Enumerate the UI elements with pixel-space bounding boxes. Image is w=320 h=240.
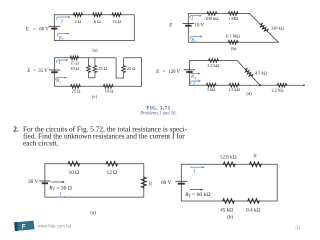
current arrow I (a) [57,16,71,20]
svg-text:0.4 kΩ: 0.4 kΩ [246,207,260,213]
svg-text:1.2 kΩ: 1.2 kΩ [207,63,220,68]
svg-text:(c): (c) [92,94,98,99]
resistor R5 2.2kΩ [277,83,288,87]
svg-text:1 MΩ: 1 MΩ [228,16,239,21]
resistor R3 12Ω [111,13,122,17]
resistor R1 1.2kΩ [208,59,219,63]
svg-text:RT = 30 Ω: RT = 30 Ω [48,186,72,192]
battery E 30V [39,181,50,183]
wire loop circuit (b) with diagonal [188,14,278,43]
svg-text:12 Ω: 12 Ω [112,19,122,24]
wire loop fig5.72 (b) [181,164,277,201]
arrow RT fig5.72b [190,189,203,191]
arrow RT (c) [56,77,67,81]
svg-text:F: F [22,224,26,231]
battery E (c) [49,70,60,72]
svg-text:I: I [58,61,61,66]
resistor R3 45kΩ [222,199,235,204]
resistor R2 6Ω [92,13,103,17]
svg-text:I: I [192,82,195,87]
svg-text:31: 31 [295,226,301,232]
svg-text:2 Ω: 2 Ω [75,19,82,24]
svg-text:25 Ω: 25 Ω [98,66,107,71]
terminal dot right end (d) [303,84,305,86]
wire U-link between vertical resistors (c) [89,58,95,78]
resistor R2 unknown R [249,162,262,167]
svg-text:10 Ω: 10 Ω [70,66,79,71]
resistor R1 15Ω [70,56,80,60]
svg-text:I: I [59,192,62,197]
svg-text:3 kΩ: 3 kΩ [207,87,216,92]
arrow RT (d) [191,73,201,75]
svg-text:E: E [168,23,172,28]
resistor R4 25Ω vertical [122,65,126,73]
battery E (d) [184,70,195,72]
svg-text:330 kΩ: 330 kΩ [271,25,285,30]
resistor R1 2Ω [73,13,84,17]
junction node dot (d) [259,84,261,86]
resistor R5 10Ω bottom [103,84,114,88]
resistor R2 4.5kΩ diagonal [243,67,253,78]
svg-text:25 Ω: 25 Ω [127,66,136,71]
svg-text:6 Ω: 6 Ω [94,19,101,24]
svg-text:45 kΩ: 45 kΩ [220,207,233,213]
svg-text:10 Ω: 10 Ω [105,89,114,94]
resistor R1 10Ω [67,162,80,167]
svg-text:60 V: 60 V [161,180,172,186]
svg-text:RT: RT [55,79,62,84]
wire circuit (d) [189,61,304,86]
svg-text:www.fida.com.bd: www.fida.com.bd [38,224,72,229]
resistor R3 330kΩ [259,22,269,32]
current arrow I fig5.72b [190,166,205,168]
svg-text:Problems 1 and 56.: Problems 1 and 56. [139,111,177,116]
wire second loop (c) [116,58,124,78]
svg-text:0.1 MΩ: 0.1 MΩ [226,33,240,38]
battery E 60V [175,181,187,183]
svg-text:12.6 kΩ: 12.6 kΩ [220,154,237,160]
svg-text:2.2 kΩ: 2.2 kΩ [271,87,284,92]
battery E (b) [183,24,194,26]
resistor R2 12Ω [105,162,118,167]
svg-text:I: I [60,20,63,25]
resistor R4 1.3kΩ [229,83,240,87]
svg-text:I: I [193,170,196,175]
current arrow I fig5.72a [55,196,67,198]
svg-text:(b): (b) [227,216,233,221]
svg-text:(a): (a) [92,48,98,53]
svg-text:1.3 kΩ: 1.3 kΩ [228,87,241,92]
arrow RT (b) [190,35,202,39]
svg-text:4.5 kΩ: 4.5 kΩ [255,70,268,75]
current arrow I (d) [191,80,201,84]
svg-text:(b): (b) [231,46,237,51]
wire loop fig5.72 (a) [45,164,144,197]
svg-text:10 Ω: 10 Ω [69,170,79,176]
svg-text:RT: RT [190,38,197,43]
svg-text:E=35 V: E=35 V [26,69,48,74]
battery E (a) [49,26,60,28]
resistor R4 0.4kΩ [247,199,260,204]
svg-text:25 Ω: 25 Ω [72,89,81,94]
resistor R2 10Ω vertical [87,65,91,73]
footer logo flag [14,221,34,231]
svg-text:RT = 60 kΩ: RT = 60 kΩ [184,192,210,198]
current arrow I (b) [190,15,202,19]
svg-text:E=60 V: E=60 V [25,27,50,32]
svg-text:200 kΩ: 200 kΩ [205,16,219,21]
resistor R1 12.6kΩ [223,162,236,167]
resistor R unknown [141,176,146,188]
resistor R2 1MΩ [228,12,239,16]
resistor R3 25Ω vertical [93,65,97,73]
current arrow I (c) [57,59,69,63]
svg-text:10 V: 10 V [195,23,205,28]
svg-text:(d): (d) [246,91,252,96]
wire loop circuit (a) [54,15,134,41]
svg-text:E=120 V: E=120 V [155,70,180,75]
resistor R6 25Ω bottom [70,84,81,88]
svg-text:R: R [252,154,257,160]
arrow RT fig5.72a [51,181,64,183]
svg-text:R: R [148,181,153,187]
svg-text:2.: 2. [13,125,19,134]
svg-text:(a): (a) [90,211,96,216]
resistor R3 3kΩ [206,83,217,87]
svg-text:I: I [190,17,193,22]
resistor R4 0.1MΩ [228,40,239,44]
wire snake circuit (c) [55,58,142,87]
svg-text:RT: RT [190,75,197,80]
arrow RT (a) [58,33,70,37]
resistor R1 200kΩ [206,12,217,16]
svg-text:12 Ω: 12 Ω [107,170,117,176]
svg-text:each circuit.: each circuit. [23,139,59,148]
svg-text:30 V: 30 V [28,179,39,185]
